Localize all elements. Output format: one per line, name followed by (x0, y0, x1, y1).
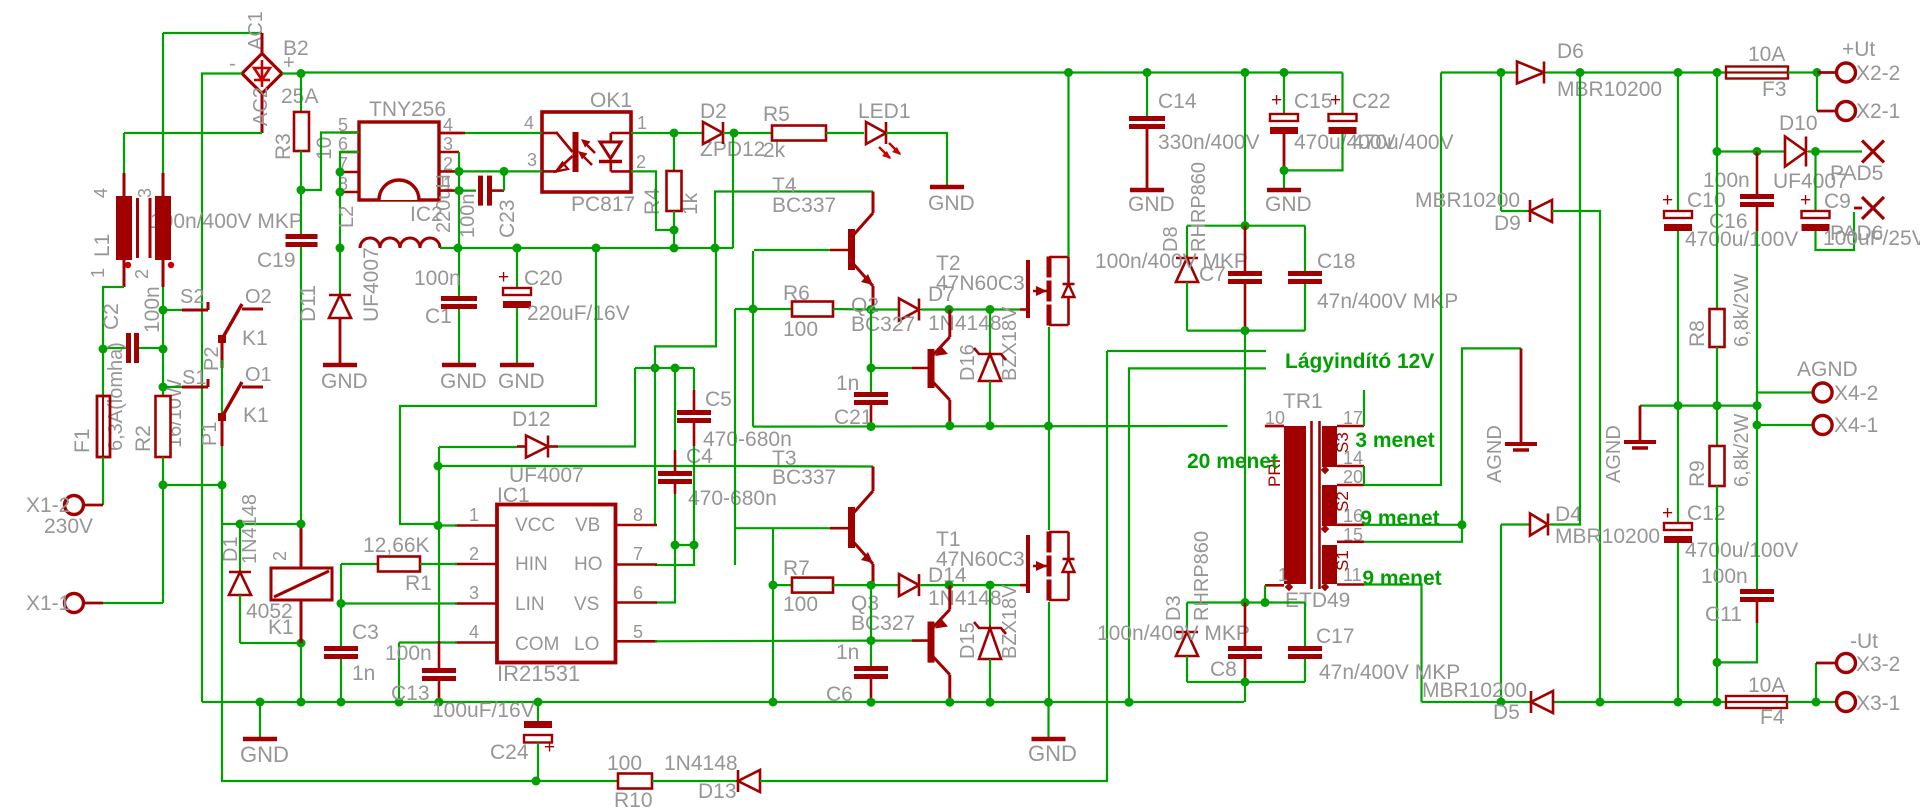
svg-text:COM: COM (515, 634, 559, 655)
svg-text:RHRP860: RHRP860 (1191, 531, 1213, 621)
wire VCC from rail to IC1 pin1 (400, 248, 596, 524)
svg-text:S2: S2 (180, 286, 204, 308)
wire AC2 to L1 pin4 (124, 132, 262, 134)
svg-text:8: 8 (633, 505, 643, 525)
svg-text:4700u/100V: 4700u/100V (1685, 539, 1798, 562)
wire bridge minus to left rail (202, 74, 242, 703)
16V rail (458, 247, 733, 249)
svg-text:+: + (1271, 90, 1282, 111)
wire TNY pin5 to R3 node (301, 133, 359, 191)
svg-text:3: 3 (469, 583, 479, 603)
wire midpoint column (1244, 331, 1246, 603)
svg-text:D12: D12 (512, 408, 551, 431)
junction S1 tap (159, 383, 168, 392)
wire T1 source to gnd rail (1048, 602, 1050, 702)
svg-text:230V: 230V (44, 515, 93, 538)
svg-text:C17: C17 (1316, 625, 1355, 648)
junction D16 bottom (986, 421, 995, 430)
junction D4 cathode top (1576, 68, 1585, 77)
svg-text:AGND: AGND (1797, 358, 1858, 381)
svg-text:2: 2 (132, 269, 152, 279)
wire S1 bottom to -Ut rail (1364, 585, 1422, 703)
junction collector feed tap (711, 244, 720, 253)
ground GND C14 (1130, 188, 1164, 193)
svg-text:+: + (1800, 190, 1811, 211)
svg-text:R9: R9 (1686, 460, 1709, 487)
svg-text:C20: C20 (524, 267, 563, 290)
svg-text:C12: C12 (1687, 502, 1726, 525)
wire loop2 to gnd rail (1244, 682, 1246, 702)
wire S1 top to AGND riser (1364, 348, 1521, 541)
svg-text:11: 11 (1343, 565, 1362, 585)
junction AGND row C10 (1674, 401, 1683, 410)
junction C16 tap (1753, 147, 1762, 156)
svg-text:AC1: AC1 (245, 11, 267, 50)
svg-text:100n: 100n (1703, 169, 1750, 192)
ground GND T1 (1047, 702, 1049, 738)
svg-text:D10: D10 (1779, 112, 1818, 135)
svg-text:BZX18V: BZX18V (999, 584, 1021, 659)
junction C6 bottom (867, 698, 876, 707)
junction C2 right (159, 345, 168, 354)
svg-text:C9: C9 (1824, 190, 1851, 213)
svg-text:D3: D3 (1163, 595, 1185, 621)
junction top rail left (297, 69, 306, 78)
svg-text:9 menet: 9 menet (1362, 567, 1441, 590)
ground GND LED (930, 185, 964, 190)
ground GND main (259, 702, 261, 738)
wire rail corner up to R5 node (732, 133, 734, 248)
svg-text:AGND: AGND (1603, 425, 1625, 483)
junction D15 bottom (986, 698, 995, 707)
wire K1 common down to bottom rail (221, 485, 223, 524)
svg-text:100: 100 (783, 593, 818, 616)
svg-text:PC817: PC817 (571, 193, 635, 216)
junction C3 gnd (337, 698, 346, 707)
VCC horizontal wire (438, 465, 734, 467)
junction T3 emitter node (867, 581, 876, 590)
svg-text:K1: K1 (268, 616, 294, 639)
junction R2 bottom node (159, 481, 168, 490)
junction C8 bottom (1241, 678, 1250, 687)
svg-text:P1: P1 (199, 422, 221, 446)
svg-text:100n: 100n (457, 194, 479, 239)
svg-text:BC337: BC337 (772, 194, 836, 217)
junction Q3 collector (945, 698, 954, 707)
bottom rail (536, 780, 618, 782)
AGND symbol 2 (1639, 406, 1642, 441)
junction C24 top (534, 698, 543, 707)
svg-text:C16: C16 (1709, 210, 1748, 233)
junction pin8 (336, 188, 345, 197)
junction relay pin1 (297, 639, 306, 648)
junction K1 common (218, 481, 227, 490)
junction C24 bottom (532, 777, 541, 786)
junction D15 top (986, 581, 995, 590)
svg-text:D5: D5 (1493, 701, 1520, 724)
svg-text:F3: F3 (1762, 78, 1787, 101)
svg-text:+: + (498, 267, 509, 288)
junction C8 top (1241, 598, 1250, 607)
wire S3-S2 series link (1363, 466, 1365, 485)
svg-text:1N4148: 1N4148 (239, 494, 261, 564)
svg-text:VCC: VCC (515, 515, 555, 536)
svg-text:3: 3 (135, 188, 155, 198)
svg-text:X3-1: X3-1 (1856, 692, 1900, 715)
svg-text:10A: 10A (1748, 43, 1785, 66)
svg-text:1: 1 (637, 113, 647, 133)
ground GND D11 (323, 363, 357, 368)
wire VS to IC1 pin6 (655, 545, 675, 603)
svg-text:2: 2 (636, 152, 646, 172)
junction C4 bottom (671, 541, 680, 550)
svg-text:220uF/16V: 220uF/16V (527, 302, 630, 325)
half bridge cap loop2 top (1187, 601, 1245, 603)
svg-text:X4-1: X4-1 (1834, 414, 1878, 437)
svg-text:X1-1: X1-1 (26, 592, 70, 615)
svg-text:X1-2: X1-2 (26, 494, 70, 517)
svg-text:K1: K1 (242, 327, 268, 350)
wire to K1 common (163, 484, 222, 486)
junction rail C20 (513, 244, 522, 253)
junction L2 right (454, 244, 463, 253)
svg-text:4: 4 (91, 188, 111, 198)
svg-text:C19: C19 (257, 249, 296, 272)
terminal X3-2 (1815, 663, 1817, 702)
junction VCC D12 tap (434, 462, 443, 471)
svg-text:5: 5 (633, 622, 643, 642)
svg-text:3 menet: 3 menet (1355, 429, 1434, 452)
svg-text:1n: 1n (352, 662, 375, 685)
junction C12 bottom rail (1674, 698, 1683, 707)
wire L2 right to rail (440, 247, 458, 249)
winding S1 (1322, 545, 1337, 584)
ground GND C15 (1283, 170, 1285, 189)
svg-text:GND: GND (240, 742, 289, 767)
junction C11 top (1753, 421, 1762, 430)
junction Q3 base node (867, 636, 876, 645)
junction C7 top (1241, 221, 1250, 230)
svg-text:100n: 100n (385, 642, 432, 665)
junction B gnd rail (1125, 698, 1134, 707)
junction COM gnd (395, 698, 404, 707)
svg-text:RHRP860: RHRP860 (1188, 162, 1210, 252)
svg-text:R3: R3 (272, 133, 295, 160)
junction C15 (1280, 68, 1289, 77)
wire bridge plus output (282, 72, 301, 74)
svg-text:4: 4 (524, 113, 534, 133)
junction C21 bottom (867, 422, 876, 431)
svg-text:L1: L1 (91, 234, 114, 257)
svg-text:B2: B2 (283, 37, 309, 60)
contact O2 (242, 308, 263, 311)
contact O1 (242, 386, 263, 389)
svg-text:D15: D15 (957, 622, 979, 659)
wire pin1 (438, 524, 457, 526)
svg-text:MBR10200: MBR10200 (1557, 78, 1662, 101)
wire T3 collector feed (734, 465, 873, 468)
svg-text:VS: VS (574, 594, 599, 615)
svg-text:1: 1 (1278, 565, 1288, 585)
svg-text:TR1: TR1 (1283, 390, 1323, 413)
junction relay GND (297, 698, 306, 707)
junction T4 emitter node (867, 305, 876, 314)
wire LIN row (341, 602, 457, 604)
terminal X2-2 (1817, 71, 1836, 74)
svg-text:2k: 2k (763, 139, 786, 162)
svg-text:+: + (1330, 90, 1341, 111)
svg-text:HO: HO (574, 554, 603, 575)
svg-text:1N4148: 1N4148 (664, 752, 738, 775)
wire gate T1 (949, 584, 1020, 586)
svg-text:GND: GND (1128, 193, 1175, 216)
wire X4-2 (1757, 393, 1812, 406)
pad PAD5 (1816, 150, 1863, 152)
junction TNY pin2 (455, 167, 464, 176)
svg-text:10A: 10A (1748, 674, 1785, 697)
wire to D11 (339, 248, 341, 295)
wire OK1 pin1 to D2 (631, 132, 674, 134)
AGND symbol 1 (1520, 348, 1523, 443)
main GND rail (202, 701, 1244, 703)
junction C11 to R9 col (1713, 658, 1722, 667)
svg-text:D9: D9 (1494, 212, 1521, 235)
svg-text:12,66K: 12,66K (363, 534, 430, 557)
junction C15 bottom (1280, 166, 1289, 175)
svg-text:6: 6 (633, 583, 643, 603)
relay K1 coil 4052 (300, 524, 303, 568)
svg-text:-Ut: -Ut (1850, 630, 1878, 653)
wire T4 collector feed (715, 192, 873, 249)
junction S2 (159, 306, 168, 315)
wire L1 pin2 down (162, 287, 164, 350)
junction Q2 collector (945, 421, 954, 430)
svg-text:100n: 100n (1701, 565, 1748, 588)
svg-text:PAD5: PAD5 (1830, 162, 1883, 185)
svg-text:47N60C3: 47N60C3 (936, 272, 1025, 295)
junction R4 bottom (670, 226, 679, 235)
svg-text:100: 100 (607, 752, 642, 775)
svg-text:1: 1 (88, 268, 108, 278)
wire OK1 pin3 row (459, 170, 542, 172)
wire relay coil row (222, 523, 301, 525)
svg-text:D6: D6 (1557, 40, 1584, 63)
wire VB to IC1 pin8 (654, 368, 656, 525)
svg-text:X2-1: X2-1 (1856, 100, 1900, 123)
svg-text:C6: C6 (826, 683, 853, 706)
svg-text:D4: D4 (1555, 503, 1582, 526)
svg-text:R1: R1 (405, 572, 432, 595)
junction D16 top (986, 305, 995, 314)
top HV rail (300, 72, 302, 74)
svg-text:HIN: HIN (515, 554, 548, 575)
junction T2 source (1044, 422, 1053, 431)
terminal X1-1 (84, 602, 103, 605)
svg-text:2: 2 (469, 544, 479, 564)
wire HO riser (734, 309, 736, 565)
junction rail VCC drop (592, 244, 601, 253)
junction C23 right (500, 167, 509, 176)
svg-text:20 menet: 20 menet (1187, 450, 1278, 473)
svg-text:1n: 1n (836, 641, 859, 664)
svg-text:GND: GND (440, 370, 487, 393)
svg-text:OK1: OK1 (590, 89, 632, 112)
svg-text:BZX18V: BZX18V (999, 306, 1021, 381)
svg-text:O2: O2 (245, 286, 272, 308)
wire S2 bottom to AGND riser (1364, 524, 1462, 526)
half bridge cap loop top (1187, 225, 1305, 227)
junction AGND row R8 (1713, 401, 1722, 410)
junction C10 top (1674, 68, 1683, 77)
svg-text:D2: D2 (700, 100, 727, 123)
svg-text:LED1: LED1 (858, 100, 911, 123)
wire VS rail to TR1 pin10 (1265, 425, 1284, 428)
wire VCC column to C13 (438, 447, 440, 642)
svg-text:C7: C7 (1199, 263, 1226, 286)
svg-text:100uF/25V: 100uF/25V (1823, 227, 1920, 250)
wire X4-1 (1756, 406, 1758, 425)
winding S3 (1322, 426, 1337, 467)
svg-text:47N60C3: 47N60C3 (936, 548, 1025, 571)
svg-text:C11: C11 (1705, 603, 1742, 626)
svg-text:10: 10 (313, 137, 336, 160)
svg-text:9 menet: 9 menet (1360, 507, 1439, 530)
svg-text:F4: F4 (1760, 706, 1785, 729)
svg-text:GND: GND (1028, 741, 1077, 766)
junction pin7 (336, 168, 345, 177)
wire T4 base column (752, 251, 754, 427)
junction R6 left (749, 305, 758, 314)
junction R9 bottom rail (1713, 698, 1722, 707)
half bridge cap loop bottom (1187, 330, 1305, 332)
wire T2 drain to top rail (1067, 73, 1069, 258)
svg-text:C24: C24 (490, 741, 529, 764)
AGND row (1640, 405, 1757, 407)
junction X3 node (1812, 698, 1821, 707)
junction C23 left (455, 186, 464, 195)
junction C13 gnd (435, 698, 444, 707)
svg-text:GND: GND (1265, 193, 1312, 216)
wire TNY pins 6-8 column (340, 152, 359, 248)
junction R8 top (1713, 68, 1722, 77)
wire S2 top to rectifier column (1364, 73, 1441, 486)
wire VB feed from rail (655, 248, 716, 368)
junction C5 bottom (690, 541, 699, 550)
svg-text:+Ut: +Ut (1842, 38, 1875, 61)
junction LIN C3 (337, 599, 346, 608)
wire LED1 cathode to GND (886, 133, 947, 187)
svg-text:TNY256: TNY256 (369, 98, 446, 121)
svg-text:O1: O1 (245, 364, 272, 386)
wire L1 pin1 to F1 column (103, 287, 124, 350)
svg-text:1: 1 (469, 505, 479, 525)
core lines (1310, 421, 1313, 589)
wire T3 base riser (772, 528, 774, 585)
svg-text:MBR10200: MBR10200 (1415, 189, 1520, 212)
junction T2 drain (1064, 68, 1073, 77)
terminal X1-2 (84, 504, 103, 507)
junction C4 top (671, 364, 680, 373)
svg-text:C3: C3 (352, 621, 379, 644)
wire TNY pin4 to OK1 pin4 (462, 132, 542, 134)
junction C14 (1143, 68, 1152, 77)
svg-text:BC327: BC327 (851, 313, 915, 336)
svg-text:F1: F1 (71, 428, 94, 453)
wire TNY pin2 junction column (458, 152, 460, 296)
svg-text:+: + (1662, 503, 1673, 524)
wire soft start A (1107, 350, 1266, 352)
junction C7 bottom (1241, 326, 1250, 335)
svg-text:C18: C18 (1317, 250, 1356, 273)
junction D1 top (236, 520, 245, 529)
switch blade K1 upper (222, 304, 242, 339)
svg-text:6,8k/2W: 6,8k/2W (1731, 274, 1753, 347)
svg-text:D8: D8 (1160, 226, 1182, 252)
svg-text:GND: GND (498, 370, 545, 393)
svg-text:100n/400V MKP: 100n/400V MKP (1097, 622, 1250, 645)
svg-text:100uF/16V: 100uF/16V (432, 699, 535, 722)
junction D4 anode rail (1497, 698, 1506, 707)
winding S2 (1322, 485, 1337, 526)
terminal X2-1 (1816, 73, 1818, 112)
junction AGND row C16 (1753, 401, 1762, 410)
wire COM to rail (399, 641, 457, 643)
relay contact S1 (163, 386, 182, 388)
wire R1 left down to LIN (340, 564, 342, 604)
wire LO to Q3 base (655, 639, 871, 642)
VB node wire (635, 367, 694, 369)
svg-text:R4: R4 (641, 188, 664, 215)
pad PAD6 (1862, 197, 1884, 219)
svg-text:LIN: LIN (515, 594, 545, 615)
wire D1 anode to relay pin1 (240, 642, 301, 644)
svg-text:X3-2: X3-2 (1856, 653, 1900, 676)
svg-text:BC327: BC327 (851, 612, 915, 635)
junction VB pin8 column (651, 364, 660, 373)
junction R4 top (670, 129, 679, 138)
svg-text:R8: R8 (1686, 320, 1709, 347)
junction coil feed (297, 520, 306, 529)
wire AC1 net: bridge top to L1 pin3 (163, 32, 262, 34)
wire pin1 to midpoint (1264, 585, 1266, 602)
svg-text:R5: R5 (763, 103, 790, 126)
wire C10 column (1677, 73, 1679, 212)
svg-text:GND: GND (321, 370, 368, 393)
svg-text:100: 100 (783, 318, 818, 341)
svg-text:470u/400V: 470u/400V (1352, 131, 1454, 154)
svg-text:R10: R10 (614, 789, 653, 812)
svg-text:C5: C5 (705, 388, 732, 411)
wire R7 ref to gnd (772, 585, 774, 702)
switch blade K1 lower (222, 382, 242, 417)
svg-text:6,8k/2W: 6,8k/2W (1731, 414, 1753, 487)
wire D4 anode column (1500, 525, 1502, 703)
wire S3 top riser (1363, 390, 1365, 426)
junction R7 left (769, 581, 778, 590)
VS rail (753, 425, 1228, 428)
svg-text:+: + (544, 737, 555, 758)
svg-text:AC2: AC2 (250, 87, 272, 126)
svg-text:25A: 25A (281, 85, 318, 108)
wire gate T2 (949, 308, 1020, 310)
half bridge cap loop2 bottom (1187, 681, 1305, 683)
terminal X3-1 (1837, 693, 1856, 712)
svg-text:BC337: BC337 (772, 466, 836, 489)
junction VCC pin1 (434, 521, 443, 530)
svg-text:X4-2: X4-2 (1834, 382, 1878, 405)
junction AGND riser (1458, 520, 1467, 529)
svg-text:MBR10200: MBR10200 (1422, 679, 1527, 702)
